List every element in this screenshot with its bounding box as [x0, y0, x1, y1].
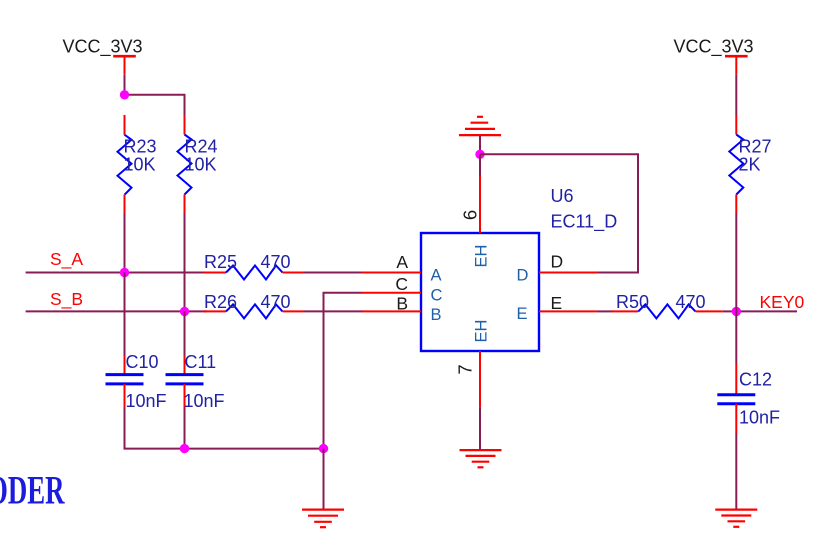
- svg-text:B: B: [431, 306, 442, 324]
- svg-text:7: 7: [455, 364, 476, 374]
- wire bottom rail: [185, 448, 324, 450]
- svg-text:10nF: 10nF: [126, 391, 167, 411]
- svg-text:B: B: [396, 294, 408, 314]
- svg-text:EH: EH: [473, 320, 491, 343]
- svg-text:470: 470: [676, 292, 706, 312]
- junction dot KEY0: [732, 307, 741, 316]
- pin D: [539, 272, 598, 274]
- junction dot S_A / R23 column: [120, 268, 129, 277]
- capacitor C12: [717, 364, 755, 433]
- ground left: [302, 510, 344, 528]
- wire R26 to pin B: [304, 310, 363, 312]
- wire KEY0 junction down to C12: [735, 311, 737, 364]
- pin 6 (top): [479, 176, 481, 233]
- svg-text:R23: R23: [124, 137, 157, 157]
- capacitor C11: [166, 311, 204, 407]
- wire top ground to junction: [479, 135, 481, 154]
- svg-text:EH: EH: [473, 245, 491, 268]
- svg-text:KEY0: KEY0: [760, 292, 805, 312]
- capacitor C10: [106, 273, 144, 408]
- svg-text:6: 6: [460, 210, 481, 220]
- power symbol VCC_3V3 right: [725, 56, 748, 75]
- pin 7 (bottom): [479, 351, 481, 408]
- power symbol VCC_3V3 left: [113, 56, 136, 75]
- junction dot S_B / R24 column: [180, 307, 189, 316]
- wire R50 to KEY0 junction: [723, 310, 737, 312]
- svg-text:10K: 10K: [124, 155, 156, 175]
- svg-text:R50: R50: [616, 292, 649, 312]
- wire R27 to KEY0 junction: [735, 213, 737, 311]
- svg-text:R25: R25: [204, 252, 237, 272]
- svg-text:10nF: 10nF: [739, 408, 780, 428]
- wire pin 7 to middle ground: [479, 408, 481, 451]
- resistor R27: [729, 115, 743, 213]
- ground right: [715, 510, 757, 527]
- svg-text:VCC_3V3: VCC_3V3: [674, 37, 754, 58]
- resistor R25: [204, 266, 304, 280]
- svg-text:D: D: [517, 267, 529, 285]
- svg-text:A: A: [431, 267, 442, 285]
- wire R23 bottom to S_A row: [124, 213, 126, 273]
- svg-text:C10: C10: [126, 352, 159, 372]
- svg-text:2K: 2K: [739, 155, 761, 175]
- resistor R26: [204, 304, 304, 318]
- wire junction down to pin 6: [479, 154, 481, 176]
- svg-text:VCC_3V3: VCC_3V3: [63, 37, 143, 58]
- wire C12 to right ground: [735, 433, 737, 510]
- wire D loop (right and down to pin D): [480, 154, 638, 272]
- wire S_B row: [26, 310, 207, 312]
- svg-text:EC11_D: EC11_D: [551, 212, 618, 233]
- ground middle: [460, 450, 502, 467]
- pin E: [539, 310, 598, 312]
- svg-text:R26: R26: [204, 292, 237, 312]
- svg-text:E: E: [517, 305, 528, 323]
- svg-text:E: E: [551, 293, 563, 313]
- junction dot rail / C11: [180, 444, 189, 453]
- pin C: [362, 292, 421, 294]
- wire junction to R24 branch (horizontal + down): [125, 95, 185, 116]
- wire pin C down to bottom rail: [324, 293, 363, 449]
- svg-text:A: A: [396, 252, 408, 272]
- svg-text:C: C: [395, 274, 408, 294]
- pin A: [362, 272, 421, 274]
- junction dot rail / ground drop: [319, 444, 328, 453]
- svg-text:U6: U6: [551, 186, 574, 206]
- wire VCC right down to R27: [735, 75, 737, 116]
- svg-text:C11: C11: [185, 352, 217, 372]
- svg-text:R27: R27: [739, 137, 772, 157]
- svg-text:C12: C12: [739, 370, 772, 390]
- svg-text:470: 470: [261, 252, 291, 272]
- wire R25 to pin A: [304, 272, 363, 274]
- resistor R23: [118, 115, 132, 213]
- wire rail to left ground: [323, 449, 325, 510]
- wire C11 bottom to rail: [184, 408, 186, 449]
- svg-text:S_A: S_A: [50, 249, 83, 270]
- svg-text:10K: 10K: [185, 155, 217, 175]
- svg-text:470: 470: [261, 292, 291, 312]
- svg-text:10nF: 10nF: [184, 391, 225, 411]
- resistor R24: [178, 115, 192, 213]
- svg-text:S_B: S_B: [50, 289, 83, 310]
- wire KEY0 stub right: [736, 310, 797, 312]
- wire S_A row: [26, 272, 207, 274]
- ground top (inverted): [459, 117, 501, 135]
- pin B: [362, 310, 421, 312]
- wire pin E to R50: [598, 310, 613, 312]
- op-amp U6 component box EC11_D: [421, 233, 539, 351]
- junction dot VCC split: [120, 90, 129, 99]
- resistor R50: [612, 304, 723, 318]
- svg-text:R24: R24: [185, 137, 218, 157]
- svg-text:C: C: [431, 286, 443, 304]
- junction dot pin6 / D loop: [475, 150, 484, 159]
- wire VCC left down to junction: [124, 75, 126, 95]
- wire R24 bottom to S_B row: [184, 213, 186, 311]
- svg-text:D: D: [551, 252, 564, 272]
- svg-text:ODER: ODER: [0, 468, 65, 513]
- wire C10 bottom to rail corner: [125, 408, 185, 449]
